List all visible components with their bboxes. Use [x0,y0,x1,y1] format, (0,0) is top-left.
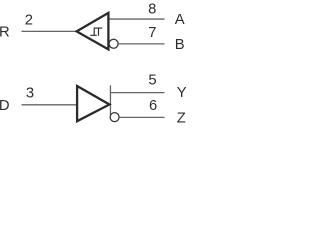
svg-text:A: A [175,12,185,28]
inversion bubble on driver Z output (pin 6) [110,113,119,122]
hysteresis symbol inside receiver [90,28,102,36]
inversion bubble on receiver B input (pin 7) [109,39,118,48]
wire D input (pin 3) [22,104,79,106]
svg-text:R: R [0,24,10,40]
wire vertical branch at driver output [109,85,111,115]
svg-text:Z: Z [177,111,186,127]
wire B output (pin 7) [119,43,165,45]
svg-text:D: D [0,98,9,114]
svg-text:5: 5 [148,73,156,89]
wire Y output (pin 5) [110,92,164,94]
wire A output (pin 8) [109,18,165,20]
svg-text:B: B [175,37,185,53]
receiver U1 triangle (points left, Schmitt input) [77,13,109,50]
wire Z output (pin 6) [120,116,165,118]
wire R input (pin 2) [22,30,78,32]
svg-text:6: 6 [149,98,157,114]
svg-text:2: 2 [25,13,33,29]
svg-text:8: 8 [148,2,156,18]
driver U2 triangle (points right) [77,86,109,121]
svg-text:3: 3 [26,86,34,102]
svg-text:Y: Y [177,85,187,101]
svg-text:7: 7 [148,25,156,41]
